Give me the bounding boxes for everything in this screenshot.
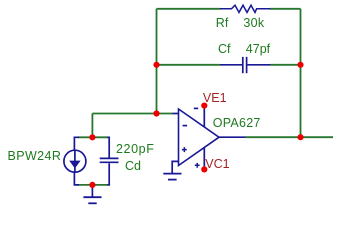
V+ minus marker	[194, 107, 198, 109]
wire: inverting input horizontal	[92, 113, 172, 115]
current source circle	[64, 150, 86, 172]
wire: top feedback horizontal left	[157, 8, 221, 10]
pin dot VC1	[201, 166, 207, 172]
svg-text:Cd: Cd	[125, 159, 141, 173]
ground (op-amp +)	[163, 173, 181, 175]
V- plus marker	[195, 163, 200, 168]
current source arrow	[69, 161, 80, 169]
capacitor Cf	[220, 64, 242, 66]
svg-text:VE1: VE1	[203, 91, 227, 105]
junction: PD top node	[89, 134, 95, 140]
op-amp inverting input pin	[173, 113, 179, 115]
wire: top feedback horizontal right	[270, 8, 301, 10]
wire: bottom rail of PD pair	[78, 184, 108, 186]
op-amp U1 OPA627 triangle	[179, 109, 220, 166]
current source bottom pin	[74, 172, 79, 185]
wire: output	[246, 136, 334, 138]
pin dot VE1	[201, 103, 207, 109]
wire: right feedback vertical	[300, 9, 302, 137]
svg-text:VC1: VC1	[205, 157, 229, 171]
svg-text:Cf: Cf	[218, 42, 231, 56]
junction: Cf right	[297, 62, 303, 68]
wire: Cf row right	[271, 64, 301, 66]
junction: PD bottom node	[89, 182, 95, 188]
junction: output node	[297, 134, 303, 140]
current source internal line	[74, 150, 76, 172]
svg-text:47pf: 47pf	[246, 42, 271, 56]
op-amp plus marker	[182, 147, 187, 152]
wire: left feedback vertical	[156, 9, 158, 114]
op-amp output pin	[219, 136, 246, 138]
op-amp V+ pin (VE1)	[203, 106, 205, 128]
capacitor Cd bottom pin	[108, 163, 110, 185]
svg-text:BPW24R: BPW24R	[8, 149, 62, 163]
svg-text:220pF: 220pF	[116, 142, 154, 156]
wire: top rail of PD pair	[78, 136, 108, 138]
op-amp minus marker	[183, 125, 188, 127]
op-amp noninverting input pin to ground	[172, 161, 178, 173]
wire: photodiode top drop	[91, 114, 93, 138]
resistor Rf	[220, 5, 271, 12]
capacitor Cd plates	[100, 157, 119, 159]
current source (photodiode) IS1 top pin	[74, 137, 79, 150]
capacitor Cd top pin	[108, 137, 110, 157]
svg-text:OPA627: OPA627	[213, 116, 261, 130]
svg-text:30k: 30k	[243, 16, 265, 30]
junction: Cf left	[153, 62, 159, 68]
op-amp V- pin (VC1)	[203, 147, 205, 169]
wire: Cf row left	[157, 64, 221, 66]
ground (photodiode bottom)	[91, 185, 93, 197]
junction: inverting node	[153, 110, 159, 116]
svg-text:Rf: Rf	[216, 16, 229, 30]
